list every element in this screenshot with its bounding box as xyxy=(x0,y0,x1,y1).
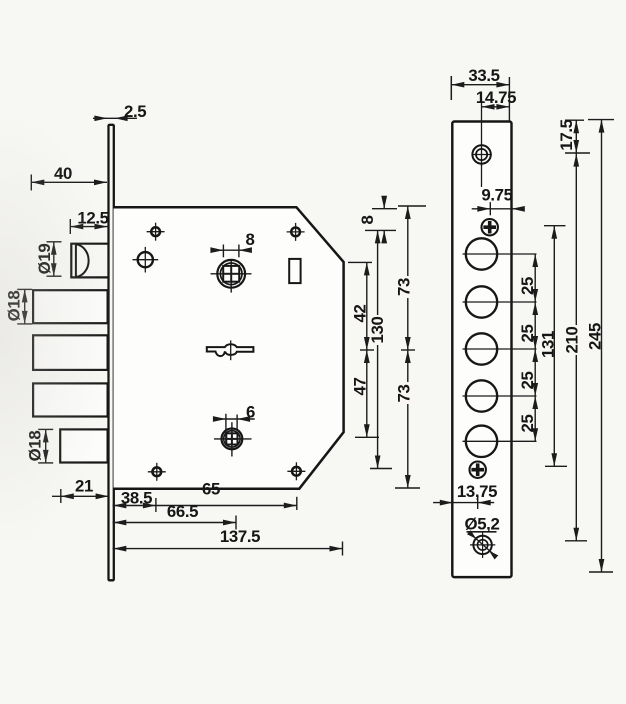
svg-text:Ø5,2: Ø5,2 xyxy=(465,515,500,534)
svg-text:65: 65 xyxy=(202,480,220,499)
svg-text:25: 25 xyxy=(518,372,537,390)
svg-text:9.75: 9.75 xyxy=(481,186,512,205)
svg-text:137.5: 137.5 xyxy=(220,527,260,546)
svg-text:73: 73 xyxy=(395,385,414,403)
svg-text:245: 245 xyxy=(586,323,605,350)
svg-text:47: 47 xyxy=(351,378,370,396)
svg-text:130: 130 xyxy=(368,317,387,344)
svg-text:25: 25 xyxy=(518,325,537,343)
svg-text:42: 42 xyxy=(351,305,370,323)
svg-text:38.5: 38.5 xyxy=(121,489,152,508)
svg-text:25: 25 xyxy=(518,277,537,295)
svg-text:2.5: 2.5 xyxy=(124,102,146,121)
svg-text:6: 6 xyxy=(246,403,255,422)
svg-text:33.5: 33.5 xyxy=(468,66,499,85)
svg-text:8: 8 xyxy=(246,230,255,249)
svg-text:13,75: 13,75 xyxy=(457,482,497,501)
svg-text:17.5: 17.5 xyxy=(557,119,576,150)
svg-text:66.5: 66.5 xyxy=(167,502,198,521)
svg-text:8: 8 xyxy=(358,215,377,224)
svg-text:73: 73 xyxy=(395,278,414,296)
svg-text:14.75: 14.75 xyxy=(476,88,516,107)
svg-text:210: 210 xyxy=(563,327,582,354)
svg-text:131: 131 xyxy=(539,331,558,358)
svg-text:25: 25 xyxy=(518,415,537,433)
